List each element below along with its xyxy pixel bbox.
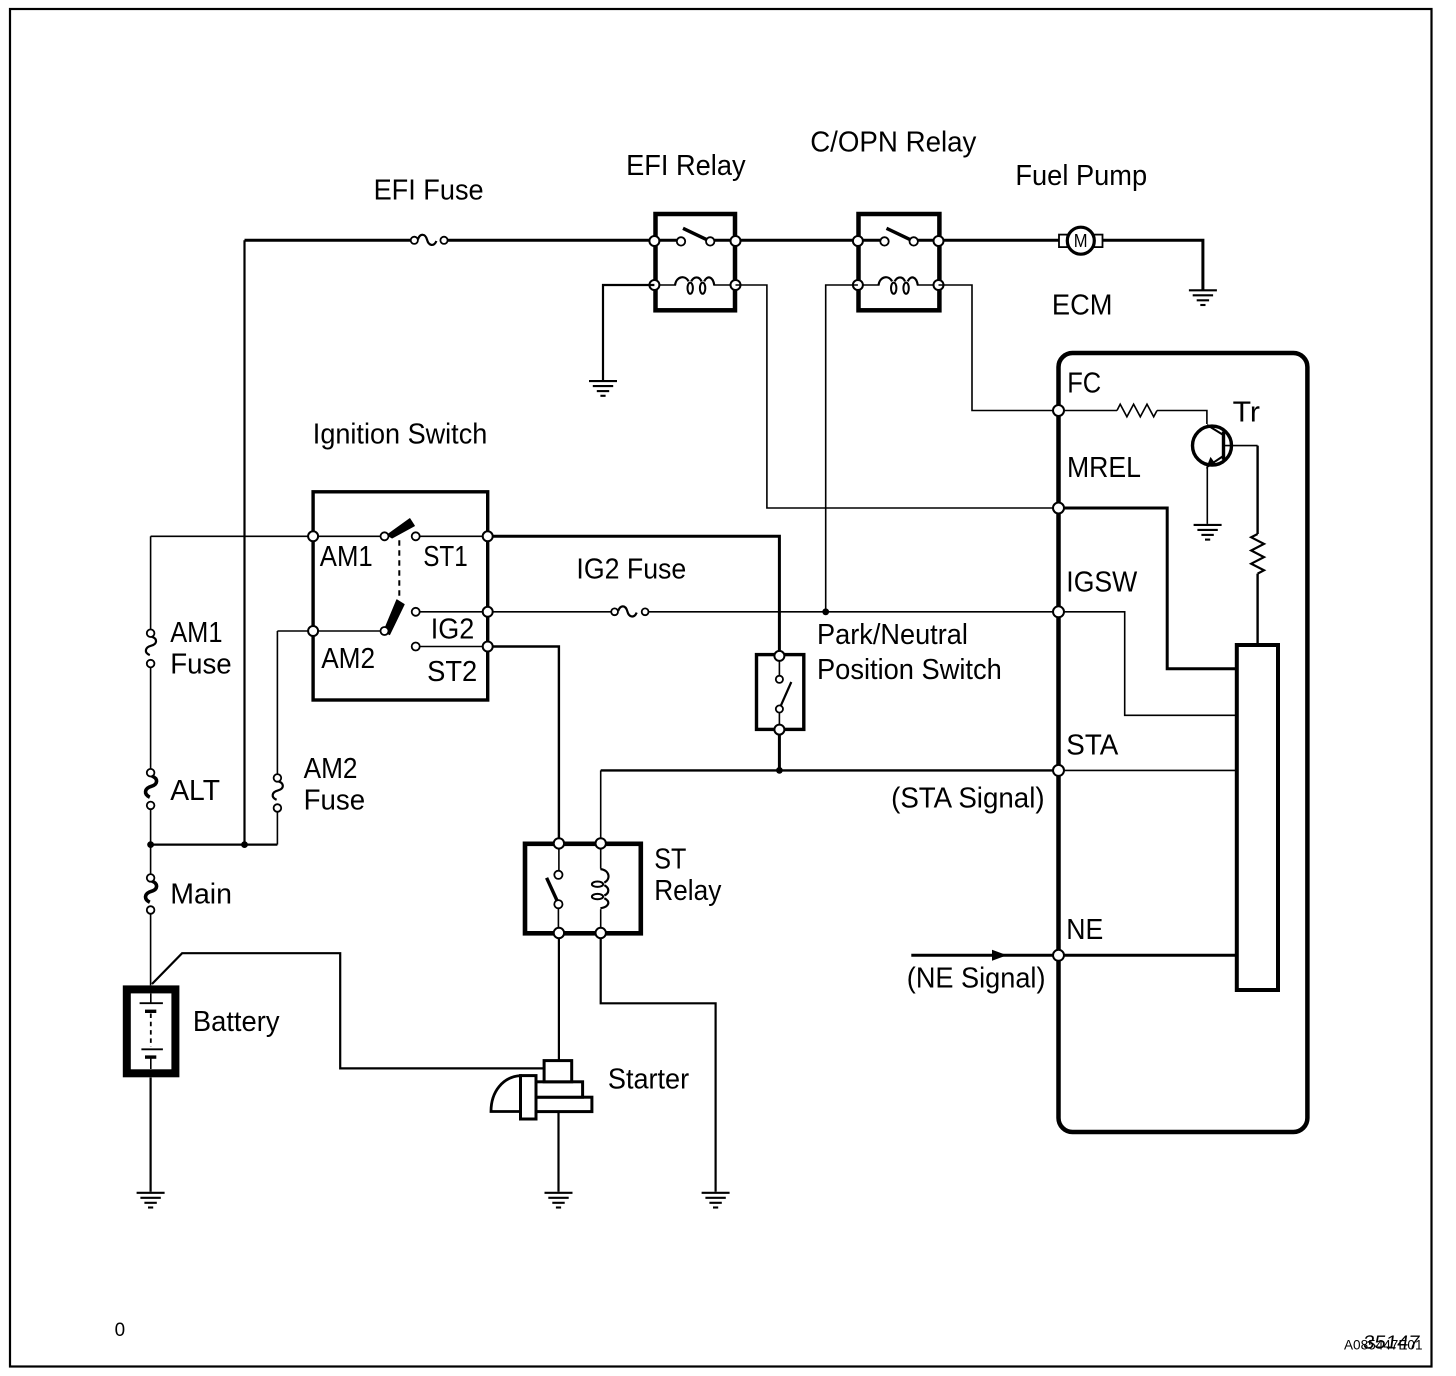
relay C/OPN Relay xyxy=(853,214,944,310)
svg-text:Relay: Relay xyxy=(654,875,722,907)
wire AM2 row xyxy=(277,630,381,632)
node junction left xyxy=(147,841,154,848)
fuse IG2 Fuse xyxy=(611,606,648,616)
resistor R1 (FC) xyxy=(1117,404,1157,417)
node junction P/N on STA line xyxy=(776,767,783,774)
svg-text:EFI Fuse: EFI Fuse xyxy=(374,175,484,207)
wire STA internal path xyxy=(1062,769,1235,771)
svg-text:Fuel Pump: Fuel Pump xyxy=(1015,160,1147,192)
wire resistor to transistor base xyxy=(1157,411,1207,425)
terminal IG2 xyxy=(483,607,493,617)
relay ST Relay xyxy=(525,838,641,938)
svg-text:FC: FC xyxy=(1067,368,1101,400)
wire AM1 row to ignition switch xyxy=(151,535,381,537)
fuse EFI Fuse xyxy=(411,235,448,245)
resistor R2 xyxy=(1251,534,1264,574)
wire IG2 inner xyxy=(420,611,488,613)
svg-text:(NE Signal): (NE Signal) xyxy=(907,962,1046,994)
wire battery to ground xyxy=(150,1078,152,1192)
starter Starter xyxy=(491,1061,592,1119)
wire NE signal with arrow xyxy=(911,954,1054,957)
wire STA signal line xyxy=(601,769,1055,771)
ground below transistor xyxy=(1194,525,1222,540)
svg-text:MREL: MREL xyxy=(1067,452,1141,484)
wire P/N switch to STA junction xyxy=(778,735,781,771)
svg-text:STA: STA xyxy=(1066,730,1119,762)
fusible link ALT xyxy=(146,769,157,809)
switch lever AM2-IG2 xyxy=(384,600,405,635)
wire FC to resistor xyxy=(1062,410,1117,412)
wire ST relay coil up to STA line xyxy=(600,770,602,838)
wire ST1 inner xyxy=(420,535,488,537)
svg-text:ECM: ECM xyxy=(1052,289,1113,321)
svg-text:AM1: AM1 xyxy=(320,541,373,573)
wire AM1 column upper xyxy=(150,536,152,629)
battery Battery xyxy=(127,989,176,1073)
svg-text:M: M xyxy=(1074,231,1088,251)
wire IGSW internal path xyxy=(1062,612,1235,716)
wire IG2 row to fuse xyxy=(488,611,611,613)
ground below starter xyxy=(545,1193,573,1208)
svg-text:0: 0 xyxy=(115,1320,126,1341)
svg-text:Park/Neutral: Park/Neutral xyxy=(817,619,968,651)
ground below fuel pump wire xyxy=(1189,290,1217,305)
svg-text:AM1: AM1 xyxy=(170,617,222,649)
wire MREL internal path xyxy=(1062,508,1235,669)
wire ST1 to park/neutral switch xyxy=(488,536,780,651)
svg-text:ALT: ALT xyxy=(170,775,220,807)
pin MREL xyxy=(1053,503,1064,514)
ground right of starter xyxy=(702,1193,730,1208)
wire collector to resistor R2 xyxy=(1224,445,1258,447)
node ST1 contact xyxy=(412,532,420,540)
node IG2 contact xyxy=(412,608,420,616)
wire C/OPN coil to FC xyxy=(939,285,1056,411)
wire EFI relay coil to ground xyxy=(603,285,654,381)
wire ST2 inner xyxy=(420,646,488,648)
wire ALT to junction xyxy=(150,809,152,845)
terminal ST2 xyxy=(483,642,493,652)
svg-text:ST: ST xyxy=(654,843,686,875)
wire IG2 fuse to IGSW pin xyxy=(649,611,1056,613)
wire EFI feed column down-left xyxy=(243,240,245,844)
switch park/neutral position xyxy=(757,651,804,735)
wire AM2 column xyxy=(276,631,278,774)
node ST2 contact xyxy=(412,643,420,651)
pin NE xyxy=(1053,950,1064,961)
ECM box xyxy=(1059,353,1308,1132)
svg-text:Ignition Switch: Ignition Switch xyxy=(313,418,488,450)
wire junction row xyxy=(151,843,278,845)
svg-text:Fuse: Fuse xyxy=(304,784,366,816)
transistor Tr xyxy=(1193,425,1232,469)
pin STA xyxy=(1053,765,1064,776)
svg-text:Battery: Battery xyxy=(193,1006,280,1038)
wire bus fuel pump to ground drop xyxy=(1102,240,1203,290)
svg-text:Starter: Starter xyxy=(608,1064,690,1096)
svg-text:ST1: ST1 xyxy=(423,541,468,573)
svg-text:AM2: AM2 xyxy=(321,643,375,675)
terminal AM1 xyxy=(308,531,318,541)
svg-text:EFI Relay: EFI Relay xyxy=(626,150,746,182)
fuse AM2 Fuse xyxy=(273,774,283,812)
node junction EFI column xyxy=(241,841,248,848)
wire C/OPN coil to IG2 line xyxy=(826,285,858,612)
wire battery positive to starter xyxy=(152,953,545,1068)
fusible link Main xyxy=(146,845,157,986)
wire AM2 fuse to junction row xyxy=(276,812,278,845)
svg-text:IG2 Fuse: IG2 Fuse xyxy=(576,554,686,586)
terminal AM2 xyxy=(308,626,318,636)
svg-text:Main: Main xyxy=(170,879,232,911)
wire ST relay switch to starter xyxy=(558,938,560,1061)
switch ignition switch box xyxy=(313,492,488,700)
wire R2 to connector xyxy=(1256,574,1258,644)
svg-text:IG2: IG2 xyxy=(431,614,475,646)
svg-text:C/OPN Relay: C/OPN Relay xyxy=(810,127,977,159)
pin IGSW xyxy=(1053,606,1064,617)
wire ST relay coil to ground xyxy=(601,938,716,1192)
wire AM1 fuse to ALT xyxy=(150,667,152,769)
wire bus C/OPN relay to fuel pump xyxy=(917,239,1060,242)
wire starter to ground xyxy=(557,1112,559,1192)
switch lever AM1-ST1 xyxy=(387,519,414,538)
svg-text:NE: NE xyxy=(1066,914,1103,946)
svg-text:(STA Signal): (STA Signal) xyxy=(891,782,1045,814)
wire ST2 to ST relay xyxy=(488,647,559,839)
node AM1 contact xyxy=(381,532,389,540)
wire emitter to ground xyxy=(1206,466,1208,524)
svg-text:Fuse: Fuse xyxy=(170,648,232,680)
wire NE internal path xyxy=(1062,954,1235,957)
svg-text:Position Switch: Position Switch xyxy=(817,654,1002,686)
pin FC xyxy=(1053,405,1064,416)
node AM2 contact xyxy=(381,627,389,635)
motor fuel pump xyxy=(1059,227,1103,254)
node junction C/OPN coil on IG2 line xyxy=(822,608,829,615)
svg-text:AM2: AM2 xyxy=(304,753,358,785)
terminal ST1 xyxy=(483,531,493,541)
wire bus EFI relay to C/OPN relay xyxy=(714,239,882,242)
relay EFI Relay xyxy=(649,214,740,310)
ground below EFI relay xyxy=(589,381,617,396)
ground below battery xyxy=(137,1193,165,1208)
svg-text:IGSW: IGSW xyxy=(1066,567,1138,599)
svg-text:ST2: ST2 xyxy=(427,656,477,688)
connector bar inside ECM xyxy=(1237,645,1278,990)
fuse AM1 Fuse xyxy=(146,629,156,667)
wire EFI relay coil to MREL xyxy=(736,285,1056,508)
wire bus EFI fuse to EFI relay xyxy=(448,239,678,242)
wire dashed mechanical link xyxy=(398,540,400,600)
wire main bus from corner to EFI fuse xyxy=(245,239,411,242)
svg-text:Tr: Tr xyxy=(1233,397,1261,429)
svg-text:35147: 35147 xyxy=(1362,1332,1422,1353)
